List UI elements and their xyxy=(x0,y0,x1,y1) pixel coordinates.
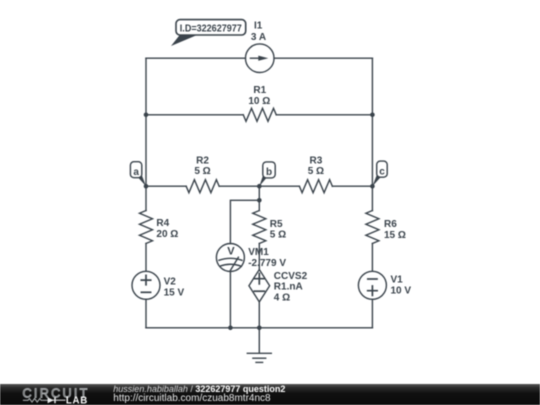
callout I.D=322627977 xyxy=(171,20,246,46)
junction dot R1 row left xyxy=(144,113,149,118)
wire R5 to CCVS2 xyxy=(258,244,260,270)
svg-text:CCVS2: CCVS2 xyxy=(274,271,308,282)
footer bar xyxy=(0,384,540,405)
CCVS2 minus sign xyxy=(254,290,264,292)
wire R6 to V1 xyxy=(371,244,373,272)
wire bottom bus xyxy=(146,327,372,329)
wire stub to VM1 branch xyxy=(230,200,259,243)
ground stem xyxy=(258,328,260,354)
svg-text:10 Ω: 10 Ω xyxy=(248,96,270,107)
wire top-left horizontal from left rail to I1 xyxy=(146,57,245,59)
svg-text:http://circuitlab.com/czuab8mt: http://circuitlab.com/czuab8mtr4nc8 xyxy=(113,393,271,404)
VM1 meter arc lower xyxy=(220,264,242,266)
junction node a xyxy=(144,184,149,189)
node a callout xyxy=(130,162,146,187)
svg-text:15 V: 15 V xyxy=(164,287,185,298)
junction VM1 tee xyxy=(257,198,262,203)
V2 minus sign xyxy=(141,291,150,293)
svg-text:R3: R3 xyxy=(310,155,323,166)
wire CCVS2 to bottom bus xyxy=(258,302,260,328)
junction node b xyxy=(257,184,262,189)
wire node b stub down xyxy=(258,186,260,200)
svg-text:V2: V2 xyxy=(164,277,177,288)
svg-text:R1: R1 xyxy=(253,85,266,96)
svg-text:15 Ω: 15 Ω xyxy=(384,230,406,241)
svg-text:R1.nA: R1.nA xyxy=(274,282,303,293)
VM1 meter arc upper xyxy=(219,258,242,260)
logo resistor zigzag xyxy=(23,399,47,403)
svg-text:R5: R5 xyxy=(270,219,283,230)
wire V1 to bottom bus xyxy=(371,299,373,328)
svg-text:I.D=322627977: I.D=322627977 xyxy=(180,23,242,35)
resistor R3 zigzag xyxy=(299,180,332,193)
current source I1 circle xyxy=(245,44,274,73)
wire top-right horizontal from I1 to right rail xyxy=(274,57,372,59)
V1 minus sign xyxy=(368,278,377,280)
CCVS2 plus sign xyxy=(254,274,264,284)
wire R1 row right segment xyxy=(276,114,372,116)
logo diode triangle xyxy=(48,397,54,403)
junction node c xyxy=(370,184,375,189)
node c callout xyxy=(372,161,387,186)
resistor R6 zigzag xyxy=(366,211,379,244)
svg-text:R6: R6 xyxy=(384,219,397,230)
svg-text:VM1: VM1 xyxy=(248,247,269,258)
V2 plus sign xyxy=(141,275,150,284)
svg-text:5 Ω: 5 Ω xyxy=(194,166,210,177)
wire bus a to R2 xyxy=(146,185,186,187)
ground bar 1 xyxy=(247,352,271,354)
wire right rail vertical (top corner to R6) xyxy=(371,58,373,210)
junction dot R1 row right xyxy=(370,113,375,118)
logo diode wire xyxy=(47,399,65,401)
resistor R1 zigzag xyxy=(243,108,276,121)
svg-text:I1: I1 xyxy=(254,21,263,32)
wire VM1 to bottom bus xyxy=(229,272,231,328)
voltage source V1 circle xyxy=(358,271,386,299)
svg-text:V1: V1 xyxy=(391,275,404,286)
wire stub to R5 xyxy=(258,200,260,210)
wire bus R2 to b xyxy=(219,185,299,187)
svg-text:R4: R4 xyxy=(156,218,169,229)
wire bus R3 to c xyxy=(332,185,372,187)
svg-text:R2: R2 xyxy=(196,155,209,166)
logo diode bar xyxy=(54,397,56,403)
svg-text:20 Ω: 20 Ω xyxy=(156,229,178,240)
svg-text:5 Ω: 5 Ω xyxy=(270,229,286,240)
wire R4 to V2 xyxy=(145,244,147,272)
V1 plus sign xyxy=(368,286,377,295)
svg-text:3 A: 3 A xyxy=(251,32,266,43)
voltmeter VM1 circle xyxy=(216,244,244,272)
node b callout xyxy=(259,162,275,186)
resistor R4 zigzag xyxy=(140,211,153,244)
wire left rail vertical (top corner to R4) xyxy=(145,58,147,210)
svg-text:4 Ω: 4 Ω xyxy=(274,292,290,303)
junction bottom bus ground xyxy=(257,326,262,331)
resistor R5 zigzag xyxy=(253,211,266,244)
dependent source CCVS2 diamond xyxy=(249,270,270,302)
wire V2 to bottom bus xyxy=(145,299,147,328)
svg-text:5 Ω: 5 Ω xyxy=(308,166,324,177)
ground bar 3 xyxy=(256,361,263,363)
junction bottom bus VM1 xyxy=(228,326,233,331)
I1 arrowhead xyxy=(258,56,268,61)
wire R1 row left segment xyxy=(146,114,243,116)
VM1 needle xyxy=(230,257,238,270)
svg-text:V: V xyxy=(227,245,235,257)
svg-text:b: b xyxy=(266,167,272,178)
svg-text:LAB: LAB xyxy=(66,396,88,405)
I1 arrow xyxy=(250,57,261,59)
ground bar 2 xyxy=(253,357,266,359)
svg-text:10 V: 10 V xyxy=(391,285,412,296)
resistor R2 zigzag xyxy=(186,180,219,193)
svg-text:-2.779 V: -2.779 V xyxy=(248,258,286,269)
svg-text:c: c xyxy=(379,167,385,178)
svg-text:a: a xyxy=(133,167,139,178)
voltage source V2 circle xyxy=(132,271,160,299)
